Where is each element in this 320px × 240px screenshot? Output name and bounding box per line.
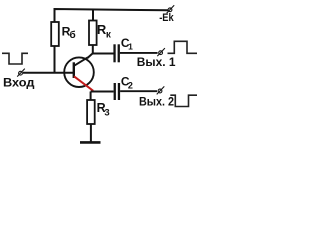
wire base from input terminal to transistor base [23,72,74,74]
wire collector node: Rк bottom, to C1, down to transistor collector [87,45,113,58]
output waveform 1 (positive pulse) [168,41,198,53]
svg-text:3: 3 [104,107,109,118]
transistor VT1 [64,57,94,91]
output terminal Вых.2 [157,86,165,94]
wire Rк top [92,9,94,21]
output waveform 2 (negative pulse) [170,95,197,106]
capacitor C2 [114,74,133,100]
svg-text:-Ek: -Ek [159,12,174,24]
wire emitter node to C2 and down to R3 [91,92,114,101]
resistor R3 [87,100,110,124]
svg-text:Вых. 1: Вых. 1 [137,55,176,69]
power terminal -Ek [167,5,175,13]
svg-text:б: б [70,29,76,41]
svg-text:Вход: Вход [3,75,35,89]
wire C2 to output terminal 2 [120,90,157,92]
capacitor C1 [113,36,133,62]
wire C1 to output terminal 1 [120,52,158,54]
resistor Rк [89,21,112,46]
wire Rб bottom to base node [54,46,56,73]
input waveform (negative pulse) [2,53,28,64]
svg-text:2: 2 [128,80,133,90]
svg-text:1: 1 [128,41,133,51]
input terminal [17,69,25,77]
wire R3 bottom to ground [90,124,92,142]
wire top rail from Rб corner to -Ek terminal [55,9,169,22]
ground [80,141,101,144]
output terminal Вых.1 [157,48,165,56]
svg-text:Вых. 2: Вых. 2 [139,94,174,108]
resistor Rб [51,22,75,46]
